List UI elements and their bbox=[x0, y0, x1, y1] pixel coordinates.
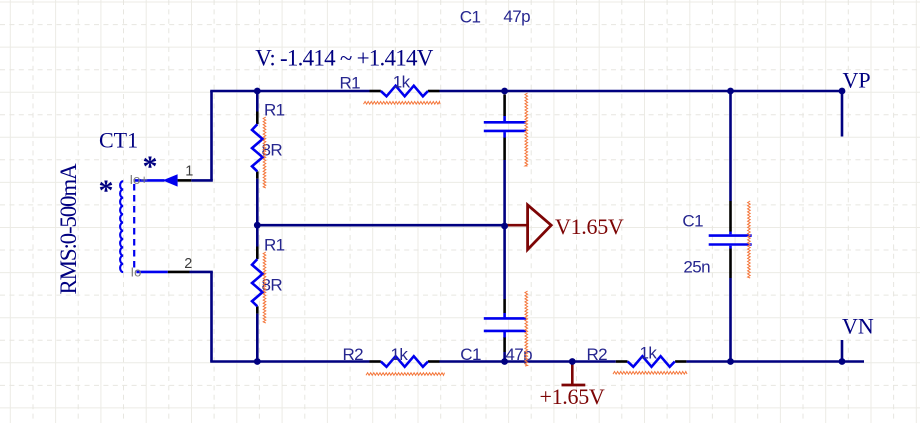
transformer pin 1 lead bbox=[134, 179, 165, 182]
wire VN stub bbox=[841, 340, 844, 362]
resistor R2 1k first: black leads bbox=[370, 360, 381, 363]
power +1.65V bar bbox=[562, 384, 586, 387]
capacitor C1 25n plates bbox=[709, 234, 752, 237]
power +1.65V stem bbox=[571, 362, 574, 386]
svg-text:V: -1.414 ~ +1.414V: V: -1.414 ~ +1.414V bbox=[255, 45, 434, 70]
wire bottom rail seg2 bbox=[440, 360, 616, 363]
wire left vertical lower bbox=[210, 272, 213, 362]
svg-text:RMS:0-500mA: RMS:0-500mA bbox=[56, 163, 81, 295]
error squiggle lower 8R bbox=[263, 252, 266, 323]
junction/port VN dot bbox=[839, 358, 846, 365]
svg-text:R1: R1 bbox=[264, 100, 285, 119]
junction top R-chain bbox=[254, 88, 261, 95]
resistor R2 1k second: black leads bbox=[616, 360, 628, 363]
junction bottom power bbox=[569, 358, 576, 365]
transformer pin 2 black lead bbox=[168, 271, 190, 274]
error squiggle under R1 1k bbox=[364, 102, 441, 105]
junction mid center bbox=[501, 223, 508, 230]
junction/port VP dot bbox=[839, 88, 846, 95]
transformer pin 1 arrow bbox=[163, 174, 178, 186]
capacitor C1 47p bottom plates bbox=[484, 317, 526, 320]
svg-text:V1.65V: V1.65V bbox=[555, 214, 624, 239]
wire top rail right segment bbox=[440, 90, 843, 93]
svg-text:R2: R2 bbox=[587, 345, 608, 364]
error squiggle top cap bbox=[525, 93, 528, 166]
capacitor C1 47p top plates bbox=[484, 121, 526, 124]
svg-text:*: * bbox=[99, 174, 114, 207]
capacitor C1 47p top: blue stubs bbox=[503, 116, 506, 121]
svg-text:C1: C1 bbox=[460, 8, 481, 27]
resistor R2 1k second zigzag bbox=[628, 356, 675, 367]
svg-text:*: * bbox=[143, 150, 158, 183]
svg-text:R2: R2 bbox=[343, 345, 364, 364]
junction bottom center bbox=[501, 358, 508, 365]
svg-text:R1: R1 bbox=[264, 235, 285, 254]
wire chain verticals navy bbox=[256, 91, 259, 112]
transformer pin 2 lead bbox=[136, 271, 167, 274]
error squiggle 25n cap bbox=[748, 201, 751, 278]
capacitor C1 47p bottom: black leads bbox=[503, 299, 506, 313]
junction top center bbox=[501, 88, 508, 95]
resistor R1 1k top: black leads bbox=[370, 90, 381, 93]
wire left vertical upper bbox=[210, 91, 213, 180]
wire pin2 to corner bbox=[190, 271, 213, 274]
svg-text:R1: R1 bbox=[340, 73, 361, 92]
junction top right bbox=[727, 88, 734, 95]
svg-text:VN: VN bbox=[842, 314, 874, 339]
svg-text:1k: 1k bbox=[393, 73, 411, 92]
resistor R1 1k top zigzag bbox=[381, 86, 428, 97]
resistor R1 8R upper zigzag bbox=[252, 124, 263, 171]
wire top rail left segment bbox=[210, 90, 369, 93]
resistor R1 8R lower zigzag bbox=[252, 259, 263, 306]
error squiggle R2 second bbox=[613, 372, 687, 375]
error squiggle upper 8R bbox=[263, 117, 266, 188]
wire bottom rail seg1 bbox=[210, 360, 369, 363]
wire pin1 to corner bbox=[191, 179, 213, 182]
error squiggle bottom cap bbox=[525, 291, 528, 366]
wire right vertical navy parts bbox=[729, 91, 732, 201]
resistor R2 1k first zigzag bbox=[381, 356, 428, 367]
svg-text:C1: C1 bbox=[682, 211, 703, 230]
svg-text:C1: C1 bbox=[460, 345, 481, 364]
svg-text:47p: 47p bbox=[505, 345, 532, 364]
svg-text:+1.65V: +1.65V bbox=[540, 384, 605, 409]
transformer CT1 dashed core line bbox=[133, 184, 135, 268]
capacitor C1 47p top: black leads bbox=[503, 95, 506, 117]
resistor R1 8R upper: black leads bbox=[256, 112, 259, 125]
error squiggle R2 first bbox=[366, 373, 445, 376]
probe triangle bbox=[528, 205, 552, 250]
wire middle horizontal bbox=[257, 224, 504, 227]
capacitor C1 25n: black leads bbox=[729, 201, 732, 232]
svg-text:Io: Io bbox=[131, 265, 142, 280]
wire center vertical navy parts bbox=[503, 160, 506, 299]
svg-text:1: 1 bbox=[185, 163, 193, 179]
junction bottom right bbox=[727, 358, 734, 365]
transformer CT1 coil bbox=[120, 181, 123, 272]
svg-text:47p: 47p bbox=[503, 7, 530, 26]
transformer pin 1 black lead bbox=[178, 179, 192, 182]
svg-text:CT1: CT1 bbox=[99, 128, 138, 153]
probe lead bbox=[505, 224, 528, 227]
svg-text:2: 2 bbox=[184, 256, 192, 272]
svg-text:1k: 1k bbox=[391, 345, 409, 364]
capacitor C1 25n: blue stubs bbox=[729, 232, 732, 235]
svg-text:VP: VP bbox=[843, 68, 871, 93]
resistor R1 8R lower: black leads bbox=[256, 247, 259, 260]
wire VP stub bbox=[841, 91, 844, 137]
svg-text:25n: 25n bbox=[683, 257, 710, 276]
junction bottom R-chain bbox=[254, 358, 261, 365]
capacitor C1 47p bottom: blue stubs bbox=[503, 313, 506, 317]
junction mid R-chain bbox=[254, 222, 261, 229]
svg-text:1k: 1k bbox=[640, 344, 658, 363]
wire bottom rail seg3 bbox=[686, 360, 864, 363]
